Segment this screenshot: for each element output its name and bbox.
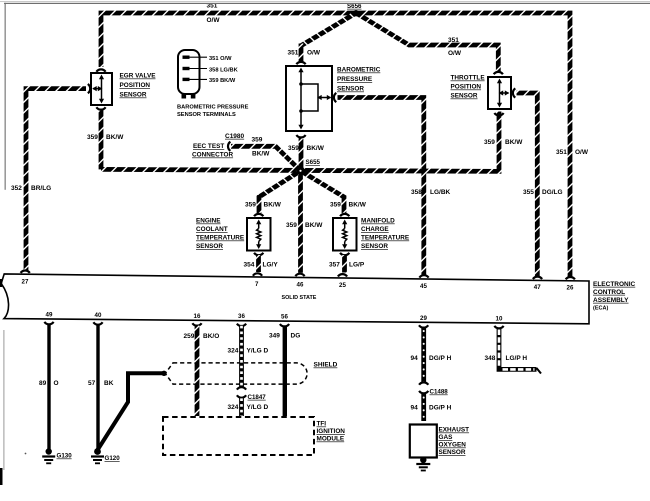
ground G130 [42, 448, 55, 463]
svg-text:COOLANT: COOLANT [196, 226, 228, 233]
svg-text:IGNITION: IGNITION [317, 428, 346, 435]
svg-text:351: 351 [556, 149, 567, 156]
connector at TPS top [494, 72, 503, 74]
wire 358 LG/BK baro output to ECA pin 45 [338, 98, 424, 277]
ground G120 [91, 448, 104, 463]
svg-text:MODULE: MODULE [317, 436, 345, 443]
wire 359 BK/W EEC test branch [231, 146, 301, 171]
connector at manifold bottom [340, 253, 349, 255]
svg-text:89: 89 [39, 380, 47, 387]
svg-text:359: 359 [87, 134, 98, 141]
ECA top pin 47 [533, 277, 542, 279]
svg-text:O/W: O/W [207, 17, 221, 24]
label TFI IGNITION MODULE [317, 421, 346, 443]
svg-text:G120: G120 [105, 455, 121, 462]
svg-text:C1847: C1847 [248, 394, 267, 401]
svg-text:BK/W: BK/W [349, 202, 367, 209]
svg-text:25: 25 [339, 282, 346, 289]
ECA top pin 46 [295, 274, 304, 276]
svg-text:46: 46 [297, 281, 304, 288]
svg-text:259: 259 [184, 333, 195, 340]
svg-text:MANIFOLD: MANIFOLD [361, 218, 395, 225]
scan artifact dot near G130 [25, 453, 27, 455]
ECA assembly band [1, 274, 589, 324]
svg-text:EXHAUST: EXHAUST [439, 427, 470, 434]
wire 351 O/W from S656 to barometric sensor [301, 13, 356, 46]
svg-text:Y/LG D: Y/LG D [247, 348, 269, 355]
page border top light [0, 1, 650, 2]
page border left lower faint [3, 330, 4, 470]
svg-text:49: 49 [46, 312, 53, 319]
exhaust gas oxygen sensor [410, 425, 437, 458]
svg-text:359: 359 [330, 202, 341, 209]
shield drain wire to G120 [98, 373, 164, 450]
svg-text:56: 56 [281, 314, 288, 321]
svg-text:DG: DG [291, 333, 301, 340]
svg-text:LG/BK: LG/BK [430, 189, 451, 196]
svg-text:SENSOR TERMINALS: SENSOR TERMINALS [177, 112, 236, 118]
splice S655 [296, 166, 305, 175]
svg-text:7: 7 [255, 281, 259, 288]
page border top [4, 3, 650, 4]
svg-text:PRESSURE: PRESSURE [337, 76, 373, 83]
svg-text:BK/W: BK/W [252, 151, 270, 158]
connector at coolant top [254, 214, 263, 216]
svg-text:O: O [54, 380, 59, 387]
svg-text:349: 349 [269, 333, 280, 340]
svg-text:THROTTLE: THROTTLE [451, 75, 486, 82]
svg-text:O/W: O/W [575, 149, 589, 156]
wire 324 Y/LG D upper [239, 326, 244, 387]
svg-text:ASSEMBLY: ASSEMBLY [593, 297, 629, 304]
label BAROMETRIC PRESSURE SENSOR [337, 67, 381, 93]
label EEC TEST CONNECTOR [192, 143, 233, 159]
barometric pressure sensor [286, 66, 332, 131]
connector at coolant bottom [254, 253, 263, 255]
svg-text:36: 36 [238, 313, 245, 320]
wire 94 DG/P H upper [421, 328, 426, 384]
connector at EGR sensor top [96, 69, 105, 71]
svg-text:324: 324 [228, 404, 239, 411]
connector at TPS output [513, 88, 515, 97]
svg-text:354: 354 [244, 262, 255, 269]
svg-text:ENGINE: ENGINE [196, 218, 221, 225]
svg-text:27: 27 [22, 278, 29, 285]
wire 259 BK/O pin 16 to TFI module [195, 326, 200, 417]
wire 351 O/W from S656 to TPS [356, 13, 498, 73]
connector C1980 [228, 142, 230, 151]
connector at EGR bottom [96, 107, 105, 109]
svg-text:SOLID STATE: SOLID STATE [282, 295, 317, 301]
svg-text:OXYGEN: OXYGEN [439, 442, 467, 449]
svg-text:359: 359 [286, 222, 297, 229]
svg-text:BK/O: BK/O [203, 333, 219, 340]
svg-text:DG/P H: DG/P H [429, 405, 452, 412]
svg-text:SENSOR: SENSOR [120, 92, 147, 99]
page border left [5, 3, 6, 190]
svg-text:358: 358 [411, 189, 422, 196]
svg-text:357: 357 [329, 262, 340, 269]
svg-text:BK/W: BK/W [505, 139, 523, 146]
svg-text:DG/LG: DG/LG [542, 189, 563, 196]
svg-text:BR/LG: BR/LG [31, 185, 51, 192]
svg-text:SENSOR: SENSOR [439, 449, 466, 456]
inline connector C1847 [237, 387, 246, 389]
connector at baro bottom [296, 135, 305, 137]
wire 351 O/W top bus from EGR sensor to ECA pin 26 [101, 13, 570, 277]
svg-text:355: 355 [523, 189, 534, 196]
svg-text:EEC TEST: EEC TEST [193, 143, 224, 150]
svg-text:LG/P: LG/P [349, 262, 365, 269]
svg-text:TFI: TFI [317, 421, 327, 428]
svg-text:45: 45 [420, 283, 427, 290]
ground at EGO sensor [416, 457, 430, 471]
svg-text:ELECTRONIC: ELECTRONIC [593, 281, 636, 288]
svg-text:BK/W: BK/W [106, 134, 124, 141]
svg-text:C1488: C1488 [430, 389, 449, 396]
svg-text:C1980: C1980 [225, 133, 245, 140]
svg-text:29: 29 [420, 315, 427, 322]
ECA top pin 7 [253, 273, 262, 275]
svg-text:BK/W: BK/W [305, 222, 323, 229]
ECA top pin 26 [566, 277, 575, 279]
wire 359 BK/W baro bottom to S655 [299, 137, 304, 171]
label THROTTLE POSITION SENSOR [451, 75, 486, 100]
splice S656 [353, 10, 359, 16]
ECA top pin 27 [21, 270, 30, 272]
svg-text:O/W: O/W [448, 50, 462, 57]
svg-text:Y/LG D: Y/LG D [247, 404, 269, 411]
svg-text:LG/Y: LG/Y [263, 262, 279, 269]
svg-text:359 BK/W: 359 BK/W [209, 78, 236, 84]
svg-text:358 LG/BK: 358 LG/BK [209, 67, 239, 73]
label ELECTRONIC CONTROL ASSEMBLY [593, 281, 636, 312]
svg-text:GAS: GAS [439, 434, 454, 441]
wire 352 BR/LG from EGR to ECA pin 27 [26, 89, 86, 271]
svg-text:EGR VALVE: EGR VALVE [120, 73, 157, 80]
scan artifact left edge near band [0, 279, 2, 287]
svg-text:351 O/W: 351 O/W [209, 56, 232, 62]
svg-text:351: 351 [448, 37, 459, 44]
svg-text:10: 10 [496, 316, 503, 323]
connector at TPS bottom [494, 113, 503, 115]
inline connector C1488 [419, 382, 428, 384]
wire 348 LG/P H pin 10 [499, 328, 537, 370]
wire 94 DG/P H lower [421, 394, 426, 422]
engine coolant temperature sensor [247, 218, 271, 251]
svg-text:SENSOR: SENSOR [337, 86, 364, 93]
TFI ignition module [163, 417, 314, 455]
wire 89 O pin 49 to G130 [47, 324, 50, 449]
svg-text:(ECA): (ECA) [593, 305, 608, 311]
svg-text:BK/W: BK/W [264, 202, 282, 209]
svg-text:359: 359 [484, 139, 495, 146]
wire 359 BK/W from EGR bottom to bus [99, 109, 104, 169]
wire 359 BK/W S655 to ECA pin 46 [298, 171, 303, 273]
svg-text:352: 352 [11, 185, 22, 192]
svg-text:348: 348 [485, 355, 496, 362]
svg-text:O/W: O/W [307, 50, 321, 57]
svg-text:359: 359 [252, 137, 263, 144]
shield dashed outline [165, 363, 307, 384]
wire 355 DG/LG TPS output to ECA pin 47 [517, 93, 538, 278]
barometric pressure sensor terminals pictorial [178, 50, 207, 99]
label MANIFOLD CHARGE TEMPERATURE SENSOR [361, 218, 410, 251]
wire 359 BK/W S655 to manifold sensor [301, 171, 345, 213]
svg-text:57: 57 [88, 380, 96, 387]
label ENGINE COOLANT TEMPERATURE SENSOR [196, 218, 245, 251]
svg-text:94: 94 [411, 405, 419, 412]
wire 349 DG pin 56 to TFI module [283, 326, 287, 416]
svg-text:16: 16 [194, 313, 201, 320]
connector at barometric sensor top [296, 62, 305, 64]
svg-text:CONNECTOR: CONNECTOR [192, 152, 233, 159]
svg-text:SENSOR: SENSOR [361, 243, 388, 250]
svg-text:TEMPERATURE: TEMPERATURE [361, 235, 410, 242]
connector at EGR wiper output [88, 84, 90, 93]
ECA top pin 45 [419, 275, 428, 277]
wire 354 LG/Y to ECA pin 7 [256, 255, 261, 272]
svg-text:SENSOR: SENSOR [451, 93, 478, 100]
svg-text:BK: BK [104, 380, 114, 387]
svg-text:SHIELD: SHIELD [314, 362, 338, 369]
svg-text:359: 359 [288, 145, 299, 152]
manifold charge temperature sensor [333, 218, 357, 251]
wire 57 BK pin 40 to G120 [96, 325, 99, 450]
svg-text:BAROMETRIC PRESSURE: BAROMETRIC PRESSURE [177, 105, 249, 111]
label EXHAUST GAS OXYGEN SENSOR [439, 427, 470, 457]
svg-text:BK/W: BK/W [307, 145, 325, 152]
svg-text:CHARGE: CHARGE [361, 226, 389, 233]
wire 359 BK/W bus to TPS bottom [101, 112, 499, 172]
svg-text:S655: S655 [306, 159, 321, 166]
connector at baro output [334, 93, 336, 102]
svg-text:SENSOR: SENSOR [196, 243, 223, 250]
svg-text:G130: G130 [57, 453, 73, 460]
svg-text:TEMPERATURE: TEMPERATURE [196, 235, 245, 242]
svg-text:94: 94 [411, 355, 419, 362]
svg-text:26: 26 [567, 284, 574, 291]
EGR valve position sensor [91, 73, 112, 105]
svg-text:LG/P H: LG/P H [506, 355, 528, 362]
svg-text:CONTROL: CONTROL [593, 289, 625, 296]
scan artifact left edge lower [0, 468, 3, 485]
svg-text:324: 324 [228, 348, 239, 355]
svg-text:POSITION: POSITION [120, 82, 151, 89]
svg-text:47: 47 [534, 284, 541, 291]
svg-text:BAROMETRIC: BAROMETRIC [337, 67, 381, 74]
wire 324 Y/LG D lower [239, 398, 244, 416]
connector at manifold top [340, 214, 349, 216]
ECA top pin 25 [338, 274, 347, 276]
svg-text:DG/P H: DG/P H [429, 355, 452, 362]
throttle position sensor [488, 77, 511, 109]
svg-text:40: 40 [95, 312, 102, 319]
wire 357 LG/P to ECA pin 25 [342, 255, 347, 273]
junction dot at shield left end [161, 371, 166, 376]
svg-text:351: 351 [288, 50, 299, 57]
label EGR VALVE POSITION SENSOR [120, 73, 157, 99]
svg-text:359: 359 [245, 202, 256, 209]
wire 359 BK/W S655 to coolant sensor [259, 171, 301, 197]
svg-text:POSITION: POSITION [451, 84, 482, 91]
